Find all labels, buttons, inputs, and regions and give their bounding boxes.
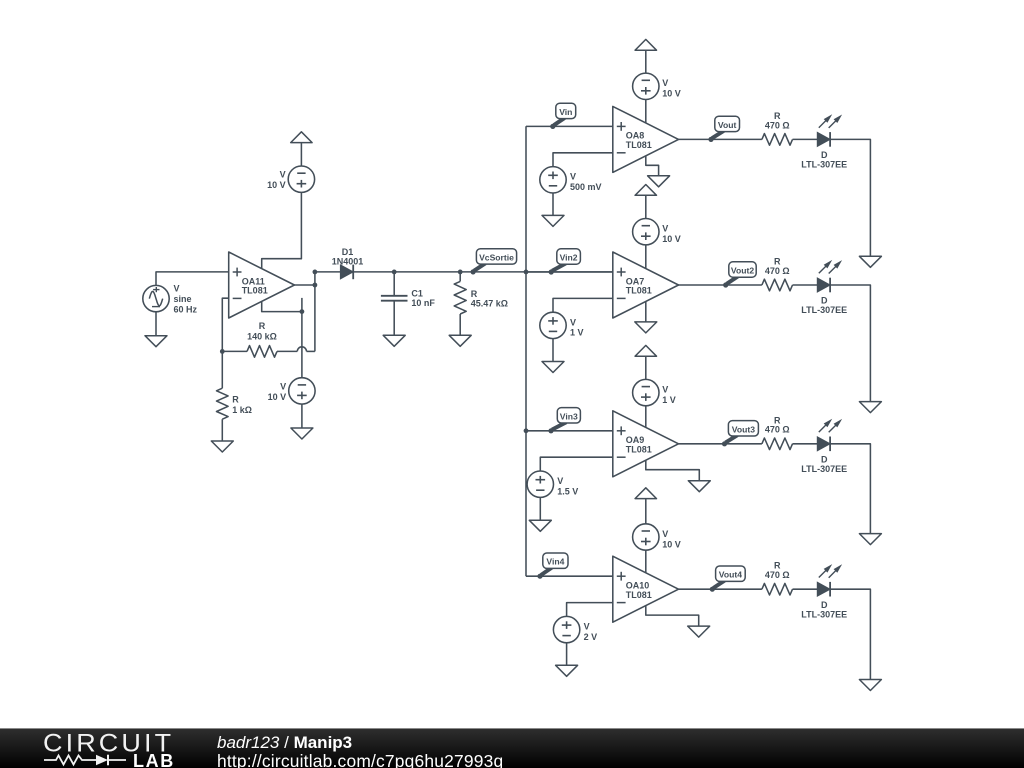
wire V1 top to OA11 + input [156,272,229,286]
label LED (row 4) [801,600,847,620]
voltage source V1 (V sine 60 Hz) [143,285,169,311]
ground (below V3) [291,428,313,439]
wire OA8 - input to reference [553,153,613,167]
wire OA10 V- pin to ground [646,606,699,627]
power flag (OA11 V+ supply) [291,132,312,143]
svg-text:V: V [280,381,286,391]
junction (output node) [313,270,318,275]
wire power flag to supply [645,195,647,218]
svg-text:10 V: 10 V [662,539,681,549]
resistor R 140 kΩ (feedback) [247,346,277,358]
label R 1 kΩ [232,395,252,415]
svg-text:Vin4: Vin4 [546,557,564,567]
wire power flag to supply [645,50,647,73]
svg-text:470 Ω: 470 Ω [765,266,790,276]
svg-text:10 V: 10 V [267,180,286,190]
svg-text:Vout2: Vout2 [731,266,754,276]
net flag Vout3 [722,421,759,447]
wire feedback node to R1k [221,351,223,388]
op-amp OA9 (TL081) [613,411,679,477]
wire reference to ground [552,193,554,215]
wire feedback right segment [277,350,297,352]
wire bus to OA7 + input [526,271,613,273]
wire supply to OA8 V+ pin [645,100,647,124]
resistor R 470 Ω (row 3) [762,438,793,450]
svg-text:1.5 V: 1.5 V [557,487,578,497]
wire R to LED (row 4) [793,588,818,590]
op-amp OA10 (TL081) [613,556,679,622]
svg-text:V: V [662,78,668,88]
wire feedback left segment [222,350,247,352]
op-amp OA7 (TL081) [613,252,679,318]
power flag (OA10 V+ supply) [635,488,656,499]
net flag Vout4 [710,566,745,592]
ground (row 1 LED return) [859,256,881,267]
wire output node to D1 [315,271,341,273]
wire bus to OA9 + input [526,430,613,432]
ground (OA9 V- pin) [688,481,710,492]
svg-text:LTL-307EE: LTL-307EE [801,464,847,474]
svg-text:470 Ω: 470 Ω [765,570,790,580]
resistor R 470 Ω (row 1) [762,134,793,146]
wire R45 bottom to ground [459,314,461,335]
wire C1 bottom to ground [393,301,395,336]
voltage source V (10 V, OA7 V+) [633,219,659,245]
op-amp OA8 (TL081) [613,106,679,172]
svg-text:Vin2: Vin2 [560,253,578,263]
label reference OA9 [557,476,578,496]
svg-text:2 V: 2 V [584,632,598,642]
net flag Vin [550,103,576,129]
wire V1 bottom stub [155,312,157,336]
wire supply to OA10 V+ pin [645,550,647,573]
voltage source V (500 mV, OA8 - input) [540,167,566,193]
wire R to LED (row 3) [793,443,818,445]
label R 45.47 kΩ [471,289,508,308]
capacitor C1 (10 nF) [381,296,408,301]
net flag Vout [708,116,739,142]
label R 470 Ω (row 3) [765,415,790,434]
label C1 name/value [411,289,435,308]
net flag Vin4 [537,553,568,579]
svg-text:D: D [821,600,828,610]
label R 470 Ω (row 4) [765,561,790,580]
voltage source V (10 V, OA10 V+) [633,524,659,550]
label supply OA7 [662,224,681,244]
svg-text:V: V [662,385,668,395]
ground (row 2 LED return) [859,402,881,413]
ground (OA10 V- pin) [688,626,710,637]
wire OA7 V- pin to ground [645,301,647,322]
ground (OA8 V- pin) [648,176,670,187]
svg-text:TL081: TL081 [626,286,652,296]
wire OA11 V- pin [262,302,302,312]
svg-text:VcSortie: VcSortie [479,252,514,262]
svg-text:60 Hz: 60 Hz [174,304,198,314]
label reference OA7 [570,317,584,337]
svg-text:V: V [570,317,576,327]
svg-text:D1: D1 [342,247,354,257]
wire OA11 output [294,284,315,286]
label supply OA10 [662,529,681,549]
net flag Vin2 [549,249,581,275]
svg-text:LTL-307EE: LTL-307EE [801,609,847,619]
wire R to LED (row 1) [793,138,818,140]
label OA11 name/value [242,276,268,295]
voltage source V (1.5 V, OA9 - input) [527,471,553,497]
wire OA7 output to R [679,284,762,286]
label LED (row 2) [801,296,847,316]
svg-text:Vout4: Vout4 [719,570,742,580]
junction (C1 tap) [392,270,397,275]
wire hop (over V3 wire) [297,347,306,352]
label V2 name/value [267,170,286,190]
wire OA9 V- pin to ground [646,460,700,481]
resistor R 470 Ω (row 2) [762,279,793,291]
junction (OA11 V- node) [300,309,305,314]
voltage source V2 (10 V, OA11 V+) [288,166,314,192]
wire OA9 output to R [679,443,762,445]
label supply OA8 [662,78,681,98]
resistor R 1 kΩ [217,388,229,419]
svg-text:sine: sine [174,294,192,304]
wire LED to ground (row 3) [830,444,870,534]
wire hop to output vertical [307,350,315,352]
label LED (row 3) [801,455,847,475]
wire LED to ground (row 2) [830,285,870,402]
label LED (row 1) [801,150,847,170]
svg-text:470 Ω: 470 Ω [765,120,790,130]
junction (feedback node) [220,349,225,354]
wire reference to ground [566,643,568,666]
wire VcSortie net (D1 to OA7 + input) [353,271,613,273]
label OA9 name/value [626,435,652,454]
svg-text:D: D [821,150,828,160]
svg-text:V: V [584,622,590,632]
svg-text:V: V [174,284,180,294]
net flag Vin3 [548,408,580,434]
svg-text:TL081: TL081 [626,140,652,150]
CircuitLab logo [43,729,174,758]
power flag (OA9 V+ supply) [635,345,656,356]
wire C1 top [393,272,395,296]
ground (below C1) [383,335,405,346]
wire R45 top [459,272,461,282]
label D1 name/value [332,247,364,267]
wire OA11 - input to feedback node [222,298,228,351]
svg-text:10 V: 10 V [662,89,681,99]
svg-text:V: V [570,172,576,182]
ground (below V1) [145,336,167,347]
LED D (LTL-307EE, row 3) [817,419,842,451]
svg-text:LTL-307EE: LTL-307EE [801,305,847,315]
resistor R 470 Ω (row 4) [762,583,793,595]
net flag Vout2 [723,262,756,288]
svg-text:1 kΩ: 1 kΩ [232,405,252,415]
wire reference to ground [552,339,554,362]
voltage source V3 (10 V, OA11 V-) [289,378,315,404]
svg-text:V: V [662,529,668,539]
label supply OA9 [662,385,676,405]
svg-text:500 mV: 500 mV [570,182,602,192]
label R 470 Ω (row 2) [765,257,790,276]
LED D (LTL-307EE, row 2) [817,260,842,292]
wire LED to ground (row 1) [830,139,870,256]
svg-text:Vout: Vout [718,120,737,130]
ground (below 2 V source) [556,665,578,676]
svg-text:R: R [232,395,239,405]
svg-text:TL081: TL081 [626,445,652,455]
wire bus to OA10 + input [526,575,613,577]
svg-text:470 Ω: 470 Ω [765,425,790,435]
junction (bus/Vin3) [524,428,529,433]
label reference OA8 [570,172,602,192]
wire power flag to supply [645,499,647,524]
ground (row 4 LED return) [859,680,881,691]
wire OA8 V- pin to ground [646,156,659,176]
diode D1 (1N4001) [340,265,353,280]
svg-text:10 V: 10 V [662,234,681,244]
svg-text:45.47 kΩ: 45.47 kΩ [471,299,508,309]
wire V2 to OA11 V+ pin [262,192,302,268]
svg-text:Vin3: Vin3 [560,411,578,421]
wire R1k to ground [221,419,223,441]
voltage source V (1 V, OA7 - input) [540,312,566,338]
net flag VcSortie [471,249,517,275]
svg-text:D: D [821,296,828,306]
svg-text:V: V [662,224,668,234]
voltage source V (10 V, OA8 V+) [633,73,659,99]
svg-text:1 V: 1 V [570,328,584,338]
svg-text:V: V [280,170,286,180]
svg-text:V: V [557,476,563,486]
wire OA9 - input to reference [540,457,613,471]
wire power flag to supply [645,356,647,379]
label OA10 name/value [626,581,652,600]
ground (OA7 V- pin) [635,322,657,333]
label R 140 kΩ [247,321,277,341]
power flag (OA8 V+ supply) [635,39,656,50]
svg-text:1 V: 1 V [662,395,676,405]
wire supply to OA9 V+ pin [645,406,647,428]
label V3 name/value [268,381,287,401]
wire V3 to ground [301,404,303,428]
voltage source V (1 V, OA9 V+) [633,379,659,405]
svg-text:10 V: 10 V [268,392,287,402]
voltage source V (2 V, OA10 - input) [553,616,579,642]
LED D (LTL-307EE, row 1) [817,114,842,146]
wire supply to OA7 V+ pin [645,245,647,269]
svg-text:TL081: TL081 [242,286,268,296]
wire OA10 output to R [679,588,762,590]
junction (output apex) [313,283,318,288]
ground (below 1.5 V source) [529,520,551,531]
junction (R tap) [458,270,463,275]
LED D (LTL-307EE, row 4) [817,564,842,596]
wire V3 up stub [301,298,303,378]
svg-text:TL081: TL081 [626,590,652,600]
wire output vertical [314,272,316,352]
label OA8 name/value [626,131,652,150]
svg-text:D: D [821,455,828,465]
ground (below R 45.47 kΩ) [449,335,471,346]
ground (below R 1 kΩ) [211,441,233,452]
svg-text:10 nF: 10 nF [411,298,435,308]
power flag (OA7 V+ supply) [635,185,656,196]
svg-text:R: R [259,321,266,331]
wire power flag to V2 [300,143,302,166]
ground (below 500 mV source) [542,215,564,226]
ground (below 1 V source) [542,362,564,373]
wire LED to ground (row 4) [830,589,870,679]
wire R to LED (row 2) [793,284,818,286]
svg-text:1N4001: 1N4001 [332,257,364,267]
label reference OA10 [584,622,598,642]
svg-text:Vin: Vin [559,107,572,117]
wire OA7 - input to reference [553,298,613,312]
wire input bus (vertical) [525,126,527,576]
junction (bus/VcSortie) [524,270,529,275]
label V1 name/value [174,284,198,315]
svg-text:140 kΩ: 140 kΩ [247,332,277,342]
label R 470 Ω (row 1) [765,111,790,130]
wire OA10 - input to reference [567,603,613,617]
resistor R 45.47 kΩ [454,281,466,314]
ground (row 3 LED return) [859,534,881,545]
wire reference to ground [539,497,541,520]
op-amp OA11 (TL081) [229,252,295,318]
footer bar [0,728,1024,768]
wire bus to OA8 + input [526,125,613,127]
wire OA8 output to R [679,138,762,140]
svg-text:LTL-307EE: LTL-307EE [801,160,847,170]
svg-text:Vout3: Vout3 [732,424,755,434]
label OA7 name/value [626,276,652,295]
